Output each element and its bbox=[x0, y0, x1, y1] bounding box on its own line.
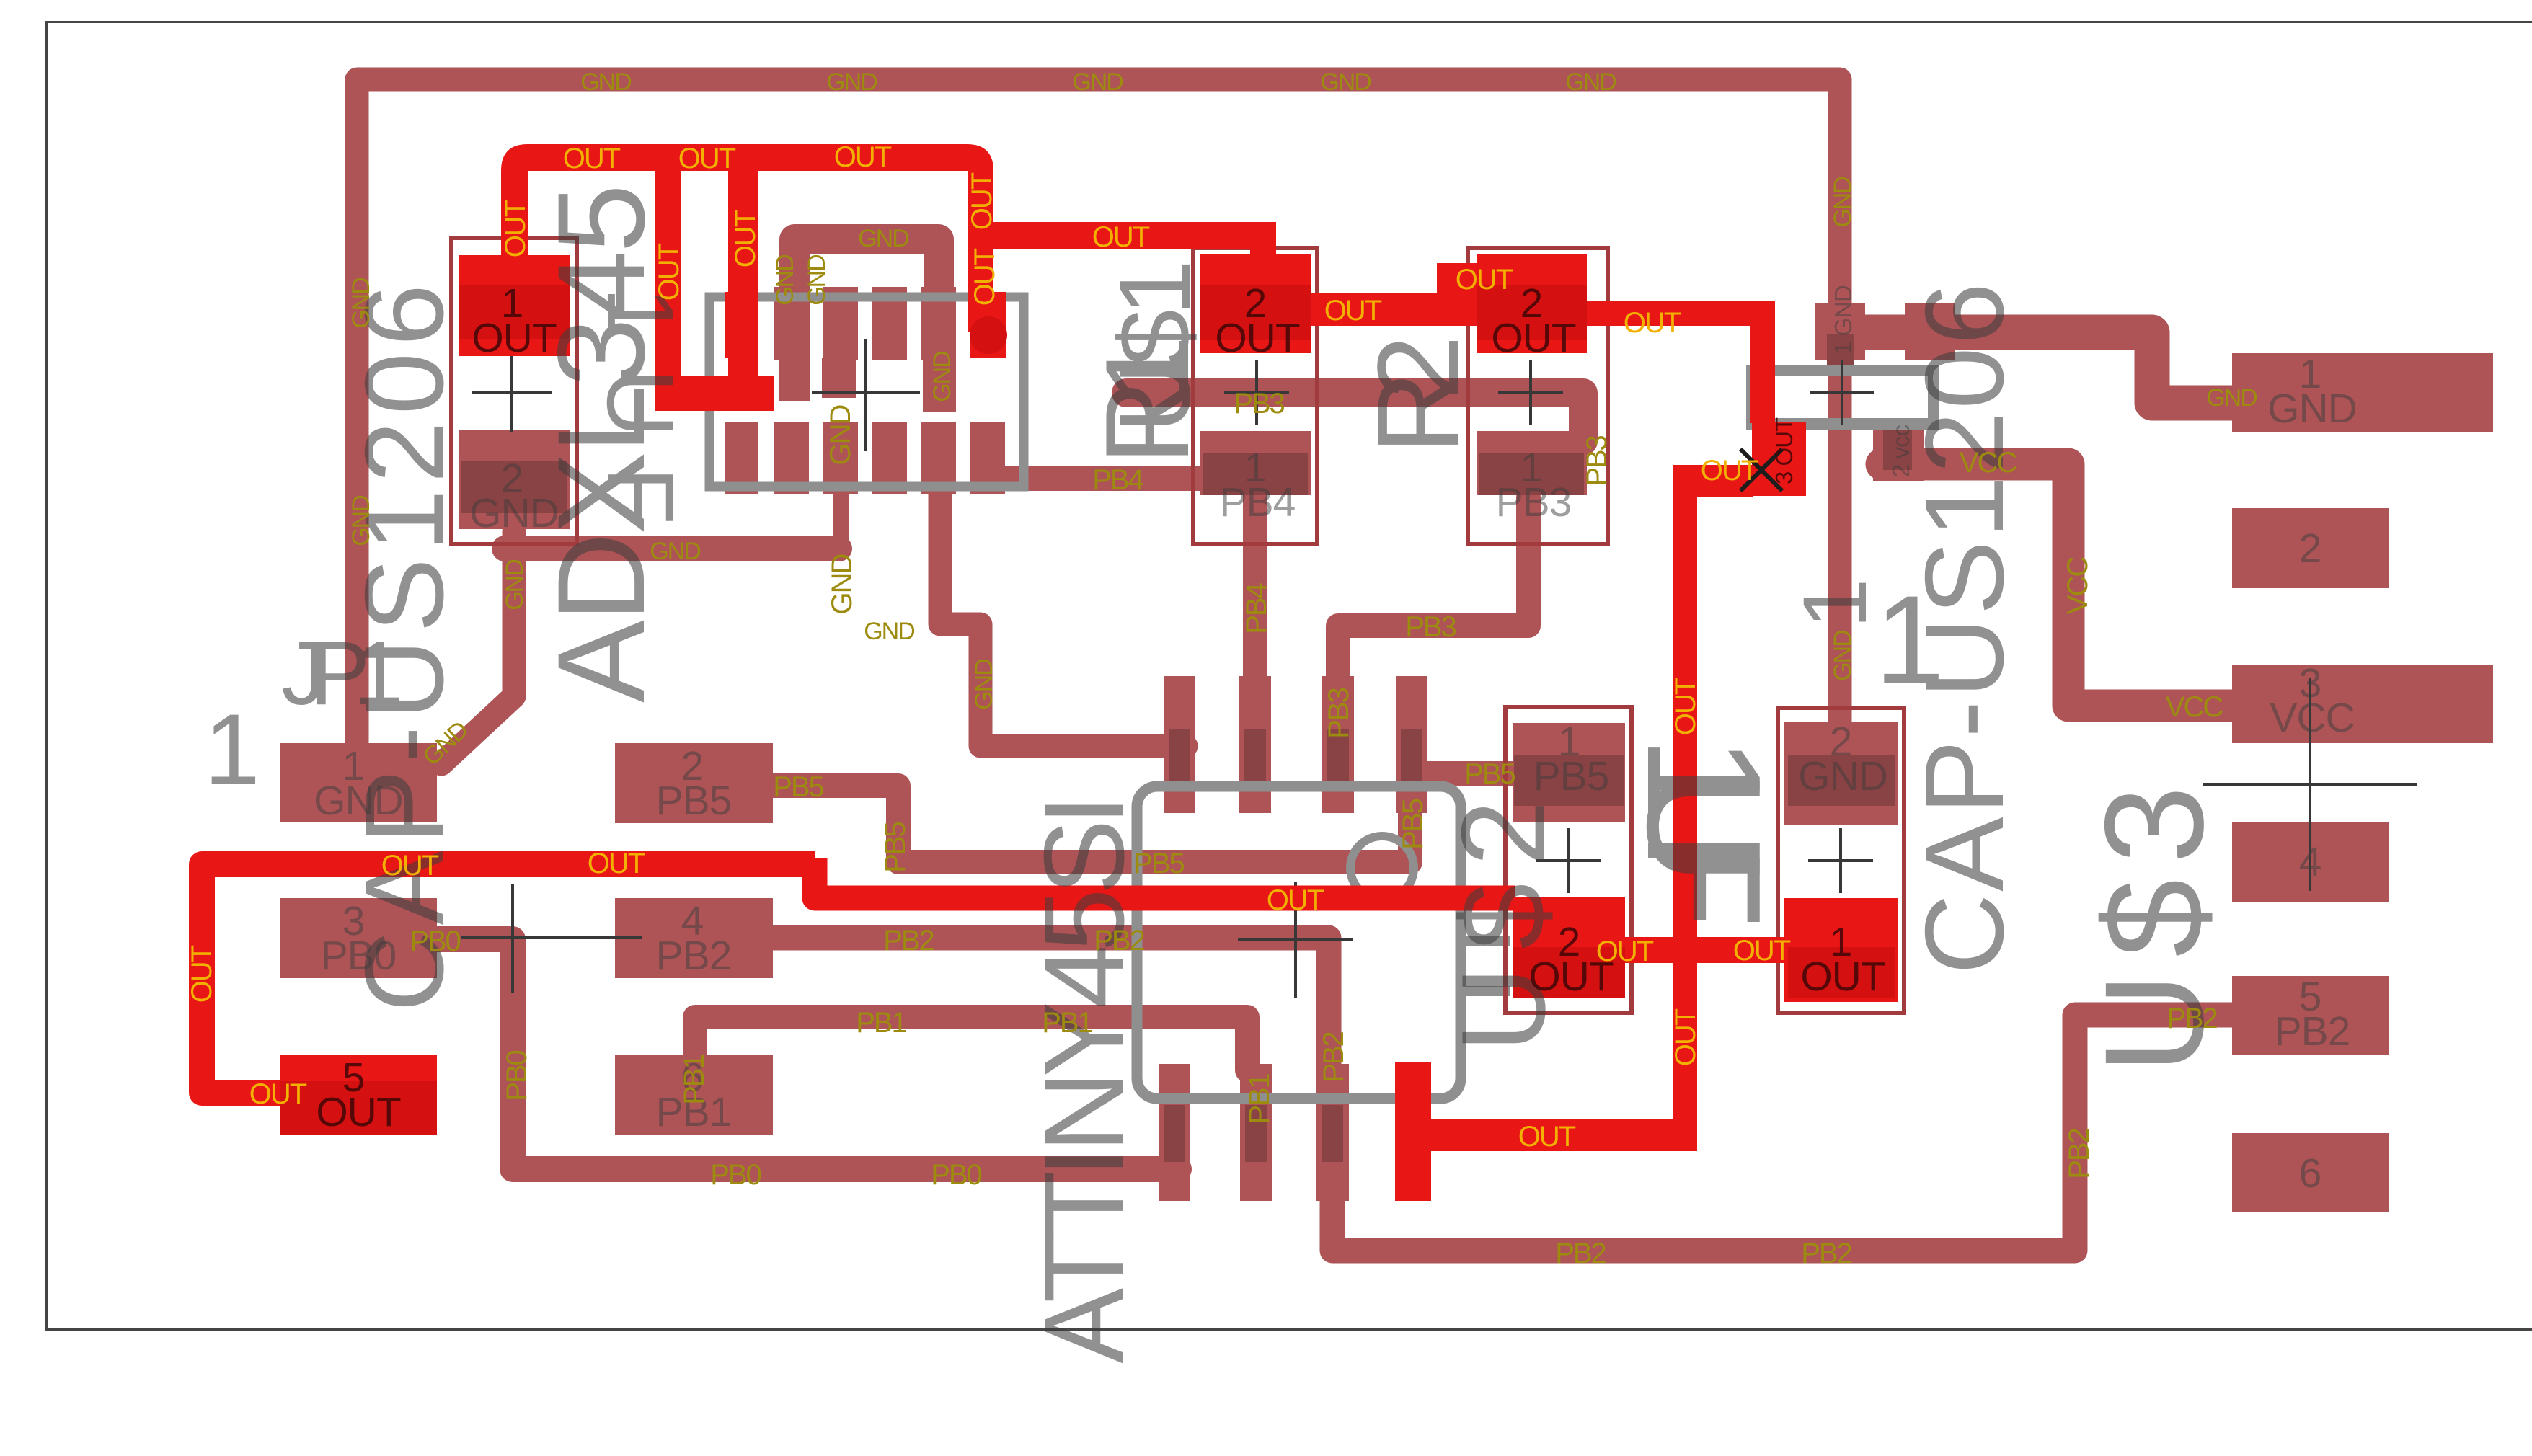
svg-text:OUT: OUT bbox=[1267, 884, 1324, 916]
ATtiny pad PB5 top1 bbox=[1164, 676, 1195, 813]
U$3 pad 3 VCC bbox=[2232, 665, 2493, 743]
U$2 pad 2 OUT bbox=[1513, 897, 1625, 998]
svg-text:OUT: OUT bbox=[1670, 1008, 1701, 1066]
svg-text:PB4: PB4 bbox=[1241, 582, 1272, 634]
wire VCC SOT23 pad2 to U$3 pad3 bbox=[1882, 464, 2235, 706]
svg-text:PB1: PB1 bbox=[856, 1007, 906, 1039]
wire OUT R1 to R2 bbox=[1311, 293, 1477, 326]
origin cross ADXL345 bbox=[812, 339, 920, 451]
resistor R2 outline bbox=[1468, 248, 1608, 544]
ADXL345 pad 5 stub bbox=[923, 358, 956, 412]
svg-text:GND: GND bbox=[1072, 68, 1123, 96]
svg-text:PB0: PB0 bbox=[410, 925, 460, 957]
svg-text:OUT: OUT bbox=[1491, 315, 1576, 361]
svg-text:1: 1 bbox=[204, 693, 260, 806]
svg-text:GND: GND bbox=[1798, 753, 1887, 799]
capacitor U1 pad 2 GND bbox=[459, 430, 570, 529]
svg-text:GND: GND bbox=[1829, 177, 1856, 228]
svg-text:PB5: PB5 bbox=[773, 771, 823, 803]
capacitor C2 outline bbox=[1778, 708, 1904, 1013]
svg-text:PB5: PB5 bbox=[1533, 753, 1609, 799]
ATTINY45 pin1 circle bbox=[1350, 836, 1414, 900]
svg-text:OUT: OUT bbox=[969, 248, 1001, 306]
svg-text:OUT: OUT bbox=[500, 200, 531, 257]
resistor R1 pad 2 OUT bbox=[1200, 254, 1311, 353]
wire OUT seg1 from JP1 pad5 bbox=[202, 864, 815, 1093]
ADXL345 bottom pad 11 bbox=[872, 422, 907, 494]
origin cross U$2 bbox=[1536, 828, 1601, 893]
svg-text:GND: GND bbox=[1565, 68, 1616, 96]
transistor SOT23 pad 3 bbox=[1905, 303, 1955, 360]
board frame left bbox=[45, 21, 48, 1331]
U$2 pad1 inner bbox=[1514, 755, 1624, 806]
capacitor U1 pad 1 OUT bbox=[459, 255, 570, 356]
transistor SOT23 pad 2 VCC bbox=[1873, 422, 1924, 481]
origin cross U$3 bbox=[2203, 678, 2417, 891]
svg-text:PB3: PB3 bbox=[1234, 388, 1284, 420]
capacitor U1 outline bbox=[451, 238, 577, 544]
ADXL345 pad 5 bbox=[921, 287, 956, 360]
C2 pad1 inner band bbox=[1788, 947, 1895, 998]
svg-text:PB1: PB1 bbox=[1244, 1073, 1275, 1124]
U$3 pad 1 GND bbox=[2232, 353, 2493, 432]
wire PB3 R2 pad1 to ATtiny pad PB3 bbox=[1338, 497, 1528, 786]
capacitor U1 pad2 inner bbox=[461, 461, 567, 513]
wire GND stub ADXL pad to row bbox=[833, 494, 849, 559]
svg-text:GND: GND bbox=[929, 352, 956, 402]
wire PB5 ATtiny pad to U$2 pad1 bbox=[1424, 761, 1518, 786]
svg-text:GND: GND bbox=[501, 560, 528, 611]
U$3 pad 6 bbox=[2232, 1133, 2389, 1212]
svg-text:GND: GND bbox=[580, 68, 631, 96]
svg-text:VCC: VCC bbox=[2062, 557, 2094, 615]
SOT23 pad1 inner bbox=[1827, 334, 1854, 366]
wire OUT jog mid and seg2 to U$2 pad2 bbox=[815, 858, 1515, 898]
svg-text:GND: GND bbox=[771, 255, 799, 306]
ADXL345 bottom pad 12 bbox=[921, 422, 956, 494]
svg-text:OUT: OUT bbox=[186, 945, 218, 1003]
svg-text:OUT: OUT bbox=[966, 172, 998, 230]
resistor R2 pad 2 OUT bbox=[1477, 254, 1587, 353]
ATtiny pad PB2 bottom3 bbox=[1316, 1064, 1349, 1201]
svg-text:R2: R2 bbox=[1353, 335, 1482, 454]
svg-text:OUT: OUT bbox=[1733, 935, 1791, 967]
ATtiny pad inner top4 bbox=[1401, 729, 1422, 786]
svg-text:OUT: OUT bbox=[1624, 307, 1681, 339]
wire GND SOT23 to U$3 pad1 bbox=[1850, 332, 2235, 403]
svg-text:1: 1 bbox=[1874, 570, 1944, 711]
svg-text:PB0: PB0 bbox=[710, 1159, 761, 1191]
svg-text:GND: GND bbox=[864, 618, 914, 645]
U$3 pad 5 PB2 bbox=[2232, 976, 2389, 1055]
transistor SOT23 outline bbox=[1752, 370, 1934, 424]
svg-text:6: 6 bbox=[2299, 1150, 2321, 1197]
JP1 pad 2 PB5 bbox=[615, 743, 773, 823]
via X pad OUT bbox=[1752, 422, 1806, 496]
ATtiny pad inner top2 bbox=[1244, 729, 1266, 786]
svg-text:PB3: PB3 bbox=[1496, 479, 1572, 525]
svg-text:OUT: OUT bbox=[381, 850, 439, 882]
transistor SOT23 pad 1 GND bbox=[1815, 303, 1865, 360]
svg-text:GND: GND bbox=[2267, 386, 2357, 432]
resistor R1 pad 1 PB4 bbox=[1200, 431, 1311, 495]
svg-text:1 GND: 1 GND bbox=[1830, 285, 1856, 355]
wire GND from U1 pad2 down and diagonal to JP1 pad1 bbox=[441, 531, 514, 764]
svg-text:GND: GND bbox=[2206, 384, 2257, 412]
ATtiny pad PB1 bottom2 bbox=[1240, 1064, 1272, 1201]
svg-text:PB2: PB2 bbox=[2063, 1128, 2095, 1178]
svg-text:OUT: OUT bbox=[1701, 455, 1758, 487]
svg-text:GND: GND bbox=[1829, 631, 1856, 681]
svg-text:GND: GND bbox=[650, 538, 700, 565]
ADXL345 pad 14 OUT bbox=[970, 292, 1006, 358]
wire OUT bottom elbow bbox=[1430, 1119, 1697, 1151]
ATtiny pad PB0 bottom1 bbox=[1159, 1064, 1190, 1201]
svg-text:GND: GND bbox=[348, 496, 375, 546]
svg-text:PB4: PB4 bbox=[1220, 479, 1296, 525]
wire OUT down to X pad bbox=[1750, 301, 1775, 423]
svg-text:OUT: OUT bbox=[1800, 954, 1885, 1000]
board frame top bbox=[45, 21, 2532, 23]
svg-text:PB2: PB2 bbox=[2275, 1008, 2350, 1055]
svg-text:PB2: PB2 bbox=[1318, 1031, 1350, 1082]
svg-text:2: 2 bbox=[2299, 525, 2321, 572]
svg-text:OUT: OUT bbox=[1092, 221, 1150, 253]
svg-text:JP1: JP1 bbox=[281, 623, 404, 724]
SOT23 pad2 inner bbox=[1883, 425, 1912, 470]
wire PB4 ADXL to R1 pad1 bbox=[1005, 466, 1208, 491]
svg-text:PB0: PB0 bbox=[501, 1050, 533, 1101]
ATtiny pad inner top1 bbox=[1169, 729, 1190, 786]
wire GND top bus with left and right drops bbox=[357, 79, 1840, 742]
origin cross U1 bbox=[472, 352, 552, 432]
svg-text:OUT: OUT bbox=[1215, 315, 1300, 361]
svg-text:PB5: PB5 bbox=[1397, 799, 1429, 849]
svg-text:OUT: OUT bbox=[730, 210, 761, 267]
JP1 pad 1 GND bbox=[280, 743, 437, 822]
svg-text:2 vcc: 2 vcc bbox=[1887, 425, 1914, 477]
ATTINY45 outline bbox=[1137, 786, 1461, 1098]
capacitor C2 pad 1 OUT bbox=[1784, 898, 1898, 1002]
R1 pad2 inner band bbox=[1200, 285, 1311, 340]
svg-text:OUT: OUT bbox=[653, 243, 685, 301]
wire PB5 JP1 pad2 to ATtiny pad PB5 bbox=[773, 786, 1410, 862]
origin cross JP1 bbox=[461, 884, 642, 993]
svg-text:PB2: PB2 bbox=[2166, 1003, 2217, 1034]
JP1 pad 6 PB1 bbox=[615, 1055, 773, 1135]
U$2 pad 1 PB5 bbox=[1513, 723, 1625, 822]
svg-text:1UF: 1UF bbox=[1614, 735, 1795, 928]
wire OUT long vertical bbox=[1673, 476, 1697, 1151]
svg-text:PB3: PB3 bbox=[1581, 435, 1613, 486]
ADXL345 pad 3 bbox=[823, 287, 858, 360]
svg-text:GND: GND bbox=[826, 68, 877, 96]
svg-text:PB1: PB1 bbox=[1042, 1007, 1092, 1039]
R1 pad1 inner bbox=[1203, 453, 1308, 495]
svg-text:1UF: 1UF bbox=[588, 287, 694, 525]
U$3 pad 2 bbox=[2232, 508, 2389, 588]
svg-text:PB0: PB0 bbox=[321, 933, 397, 979]
svg-text:3 OUT: 3 OUT bbox=[1771, 417, 1797, 484]
svg-text:VCC: VCC bbox=[2166, 691, 2223, 723]
wire GND from ADXL bottom pad to ATtiny pad1 bbox=[940, 494, 1186, 746]
svg-text:PB2: PB2 bbox=[1555, 1238, 1606, 1269]
U$2 lead stub upper bbox=[1466, 936, 1510, 946]
svg-text:1: 1 bbox=[1785, 578, 1885, 629]
ADXL345 bottom pad 13 bbox=[970, 422, 1005, 494]
svg-text:VCC: VCC bbox=[1960, 447, 2017, 479]
origin cross R1 bbox=[1224, 360, 1289, 425]
wire OUT jog bbox=[1437, 263, 1477, 296]
svg-text:GND: GND bbox=[825, 405, 856, 465]
U$3 pad 4 bbox=[2232, 822, 2389, 902]
wire OUT U$2 pad2 to C2 pad1 bbox=[1625, 937, 1788, 963]
ADXL345 bottom pad 10 bbox=[823, 422, 858, 494]
svg-text:PB1: PB1 bbox=[678, 1054, 710, 1104]
svg-text:PB2: PB2 bbox=[1094, 925, 1144, 956]
svg-text:U$2: U$2 bbox=[1437, 800, 1570, 1052]
ADXL345 bottom pad 8 bbox=[725, 422, 758, 494]
op-amp ADXL345 outline bbox=[709, 297, 1024, 487]
svg-text:ATTINY45SI: ATTINY45SI bbox=[1021, 794, 1148, 1364]
wire PB1 JP1 pad6 to ATtiny pad PB1 bbox=[695, 1017, 1247, 1070]
X mark on via bbox=[1740, 449, 1782, 491]
svg-text:OUT: OUT bbox=[472, 315, 557, 361]
svg-text:OUT: OUT bbox=[1518, 1121, 1576, 1153]
svg-text:PB2: PB2 bbox=[1801, 1238, 1851, 1269]
ATtiny pad inner bottom3 bbox=[1322, 1105, 1343, 1162]
svg-text:4: 4 bbox=[2299, 839, 2321, 885]
svg-text:GND: GND bbox=[826, 554, 858, 614]
capacitor C2 pad2 inner bbox=[1788, 755, 1895, 806]
svg-text:OUT: OUT bbox=[1596, 936, 1654, 967]
svg-text:OUT: OUT bbox=[1456, 264, 1513, 296]
wire OUT elbow bbox=[655, 376, 774, 411]
wire OUT top bus bbox=[501, 144, 1276, 259]
svg-text:GND: GND bbox=[803, 255, 831, 306]
R2 pad1 inner bbox=[1479, 453, 1584, 495]
wire PB4 R1 pad1 to ATtiny pad PB4 bbox=[1243, 494, 1267, 724]
U$2 pad2 inner band bbox=[1513, 947, 1625, 998]
wire OUT drop V3 bbox=[728, 166, 758, 382]
origin cross SOT23 bbox=[1810, 360, 1874, 425]
U$2 lead stub lower bbox=[1466, 986, 1510, 996]
ATtiny pad PB3 top3 bbox=[1322, 676, 1354, 813]
svg-text:PB4: PB4 bbox=[1092, 464, 1143, 496]
svg-text:PB5: PB5 bbox=[656, 778, 732, 824]
svg-text:PB2: PB2 bbox=[883, 925, 934, 956]
svg-text:OUT: OUT bbox=[316, 1089, 401, 1135]
JP1 pad 4 PB2 bbox=[615, 898, 773, 978]
wire OUT drop V2 bbox=[655, 166, 681, 404]
wire GND staple over ADXL bbox=[794, 239, 939, 401]
U$2 outline bbox=[1505, 707, 1632, 1013]
JP1 pad 3 PB0 bbox=[280, 898, 437, 978]
U1 pad1 inner band bbox=[459, 285, 570, 339]
svg-text:PB5: PB5 bbox=[1464, 758, 1515, 790]
origin cross R2 bbox=[1498, 360, 1563, 425]
wire OUT R2 to X pad bbox=[1587, 301, 1762, 326]
resistor R1 outline bbox=[1193, 248, 1317, 544]
wire PB2 JP1 pad4 to ATtiny pad PB2 bbox=[773, 938, 1329, 1070]
svg-text:R1: R1 bbox=[1081, 335, 1213, 465]
R2 pad2 inner band bbox=[1477, 285, 1587, 340]
wire GND horizontal row under U1/ADXL bbox=[505, 536, 839, 561]
wire OUT X pad to vertical bbox=[1673, 465, 1753, 497]
svg-text:PB5: PB5 bbox=[1133, 848, 1184, 879]
wire PB0 JP1 pad3 to ATtiny pad PB0 bbox=[433, 939, 1179, 1169]
svg-text:GND: GND bbox=[970, 660, 998, 710]
svg-text:ADXL345: ADXL345 bbox=[532, 184, 670, 703]
svg-text:GND: GND bbox=[348, 278, 375, 329]
svg-text:PB3: PB3 bbox=[1405, 611, 1456, 643]
ADXL pad14 circle bbox=[970, 316, 1007, 354]
svg-text:OUT: OUT bbox=[588, 848, 645, 879]
svg-text:OUT: OUT bbox=[563, 143, 621, 174]
svg-text:GND: GND bbox=[858, 225, 908, 252]
ATtiny pad OUT bottom4 bbox=[1395, 1062, 1431, 1201]
ADXL345 bottom pad 9 bbox=[774, 422, 809, 494]
ADXL345 pad 2 bbox=[774, 287, 809, 360]
ATtiny pad PB4 top2 bbox=[1239, 676, 1271, 813]
svg-text:PB0: PB0 bbox=[931, 1159, 981, 1191]
svg-text:OUT: OUT bbox=[1324, 295, 1382, 327]
origin cross C2 bbox=[1808, 828, 1873, 893]
ATtiny pad top4 bbox=[1396, 676, 1427, 813]
capacitor C2 pad 2 GND bbox=[1784, 722, 1898, 825]
svg-text:VCC: VCC bbox=[2270, 695, 2354, 741]
svg-text:OUT: OUT bbox=[678, 143, 736, 174]
svg-text:GND: GND bbox=[314, 778, 403, 824]
svg-text:PB2: PB2 bbox=[656, 933, 732, 979]
ATtiny pad inner bottom2 bbox=[1245, 1105, 1267, 1162]
svg-text:GND: GND bbox=[469, 490, 559, 536]
resistor R2 pad 1 PB3 bbox=[1477, 431, 1587, 495]
origin cross ATTINY45 bbox=[1238, 882, 1353, 998]
ADXL345 pad 4 bbox=[872, 287, 907, 360]
ATtiny pad inner top3 bbox=[1327, 729, 1349, 786]
wire PB2 ATtiny pad to U$3 pad5 bbox=[1332, 1015, 2235, 1251]
svg-text:PB5: PB5 bbox=[880, 822, 911, 872]
wire PB3 band to R2 pad1 bbox=[1126, 393, 1583, 441]
svg-text:PB3: PB3 bbox=[1323, 688, 1355, 738]
ADXL345 pad 3 stub bbox=[822, 358, 856, 398]
wire OUT drop to ADXL pad 14 bbox=[968, 238, 993, 332]
JP1 pad 5 OUT bbox=[280, 1055, 437, 1135]
board frame bottom bbox=[45, 1328, 2532, 1331]
ADXL345 pad 1 OUT bbox=[725, 292, 758, 358]
JP1 pad5 inner band bbox=[280, 1081, 437, 1135]
svg-text:GND: GND bbox=[1320, 68, 1371, 96]
svg-text:OUT: OUT bbox=[249, 1078, 307, 1110]
ATtiny pad inner bottom1 bbox=[1164, 1105, 1185, 1162]
svg-text:OUT: OUT bbox=[1670, 678, 1701, 735]
svg-text:OUT: OUT bbox=[834, 141, 892, 173]
